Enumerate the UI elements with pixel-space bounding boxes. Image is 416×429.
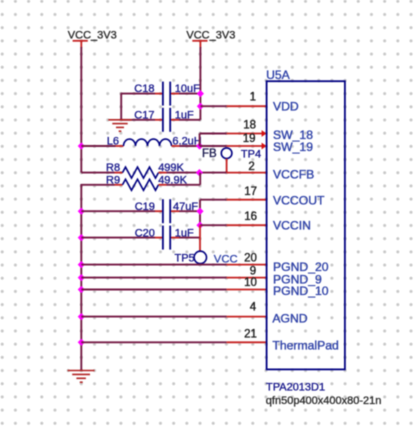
wire R8 left lead <box>81 172 114 174</box>
wire VCCIN <box>200 224 227 226</box>
junction dot AGND <box>78 313 85 320</box>
svg-text:qfn50p400x400x80-21n: qfn50p400x400x80-21n <box>266 395 382 407</box>
junction dot C19 left <box>78 208 85 215</box>
wire SW net to junction <box>180 145 200 147</box>
svg-text:ThermalPad: ThermalPad <box>272 339 338 353</box>
svg-text:R9: R9 <box>106 174 120 186</box>
junction dot FB <box>196 169 203 176</box>
svg-text:R8: R8 <box>106 162 120 174</box>
svg-text:1: 1 <box>250 91 256 103</box>
wire PGND_9 <box>81 277 226 279</box>
resistor R9 <box>106 174 188 190</box>
wire C19 left segment <box>81 210 155 212</box>
wire C17 right segment <box>179 119 200 121</box>
pin 2 VCCFB stub <box>227 172 267 174</box>
svg-text:17: 17 <box>244 186 257 198</box>
svg-text:18: 18 <box>243 120 256 132</box>
wire PGND_10 <box>81 289 226 291</box>
junction dot SW <box>196 142 203 149</box>
svg-text:20: 20 <box>244 253 257 265</box>
wire C18 left segment + corner down <box>121 93 155 120</box>
svg-text:VDD: VDD <box>273 100 299 114</box>
svg-text:VCC_3V3: VCC_3V3 <box>68 30 117 42</box>
svg-text:C17: C17 <box>134 109 154 121</box>
capacitor C20 <box>135 226 194 250</box>
pin 20 PGND_20 stub <box>227 264 267 266</box>
capacitor C17 <box>134 108 194 132</box>
pin 17 VCCOUT stub <box>227 199 267 201</box>
wire C17 left segment <box>121 119 155 121</box>
junction dot C18/VCC <box>197 90 204 97</box>
wire C19 right segment <box>179 210 200 212</box>
junction dot C19 right <box>196 208 203 215</box>
svg-text:2: 2 <box>248 161 254 173</box>
junction dot PGND_20 <box>78 261 85 268</box>
svg-text:C20: C20 <box>135 227 155 239</box>
wire R8 right to FB junction <box>167 172 227 174</box>
op-amp U5A (IC box) <box>266 68 345 370</box>
junction dot VDD <box>197 103 204 110</box>
junction dot ThermalPad <box>78 339 85 346</box>
pin 10 PGND_10 stub <box>227 289 267 291</box>
svg-text:TP4: TP4 <box>241 148 261 160</box>
svg-text:FB: FB <box>202 148 217 160</box>
svg-text:L6: L6 <box>107 135 119 147</box>
power port VCC_3V3 (right) <box>186 30 235 48</box>
pin 16 VCCIN stub <box>227 224 267 226</box>
ground (at C17) <box>108 120 131 131</box>
wire R9 left lead <box>81 184 114 370</box>
wire ThermalPad <box>81 341 226 343</box>
svg-text:16: 16 <box>244 211 257 223</box>
svg-text:U5A: U5A <box>266 68 291 82</box>
wire VDD <box>200 105 226 107</box>
wire VCCOUT corner <box>200 200 227 226</box>
pin 4 AGND stub <box>227 316 267 318</box>
junction dot PGND_10 <box>78 286 85 293</box>
wire PGND_20 <box>81 264 226 266</box>
svg-text:PGND_10: PGND_10 <box>273 284 329 298</box>
wire left VCC bus vertical <box>80 47 82 173</box>
svg-text:21: 21 <box>244 329 257 341</box>
wire C20 right segment <box>179 237 200 239</box>
svg-text:VCCIN: VCCIN <box>273 219 311 233</box>
capacitor C18 <box>134 82 200 106</box>
test point TP4 <box>221 148 261 173</box>
svg-text:10: 10 <box>244 277 257 289</box>
wire C18 right segment <box>179 93 200 95</box>
wire C20 left segment <box>81 237 155 239</box>
capacitor C19 <box>135 199 199 223</box>
power port VCC_3V3 (left) <box>68 30 117 48</box>
svg-text:AGND: AGND <box>272 311 307 325</box>
svg-text:TP5: TP5 <box>175 253 195 265</box>
svg-text:VCC_3V3: VCC_3V3 <box>186 30 235 42</box>
wire AGND <box>81 316 226 318</box>
svg-text:9: 9 <box>250 265 256 277</box>
inductor L6 <box>107 135 202 147</box>
pin 18 SW_18 stub with arrow <box>227 130 267 137</box>
svg-text:C19: C19 <box>135 201 155 213</box>
test point TP5 <box>175 225 207 264</box>
ground (main, bottom left) <box>68 371 95 383</box>
wire SW_19 <box>200 145 227 147</box>
svg-text:19: 19 <box>243 133 256 145</box>
pin 9 PGND_9 stub <box>227 277 267 279</box>
svg-text:SW_19: SW_19 <box>273 140 313 154</box>
resistor R8 <box>106 162 185 178</box>
svg-text:4: 4 <box>250 302 257 314</box>
svg-text:C18: C18 <box>134 83 154 95</box>
wire right VCC vertical <box>199 47 201 120</box>
junction dot C20 left <box>78 234 85 241</box>
wire R9 right lead up to FB junction <box>167 173 201 185</box>
svg-text:TPA2013D1: TPA2013D1 <box>266 381 325 393</box>
svg-text:VCCOUT: VCCOUT <box>273 194 325 208</box>
pin 19 SW_19 stub with arrow <box>227 143 267 150</box>
pin 21 ThermalPad stub <box>227 341 267 343</box>
junction dot L6 branch <box>78 142 85 149</box>
pin 1 VDD stub <box>227 105 267 107</box>
svg-text:VCCFB: VCCFB <box>273 168 314 182</box>
junction dot PGND_9 <box>78 274 85 281</box>
wire L6 left lead <box>81 145 115 147</box>
junction dot VCCIN <box>196 222 203 229</box>
wire SW_18 jog <box>200 134 227 147</box>
